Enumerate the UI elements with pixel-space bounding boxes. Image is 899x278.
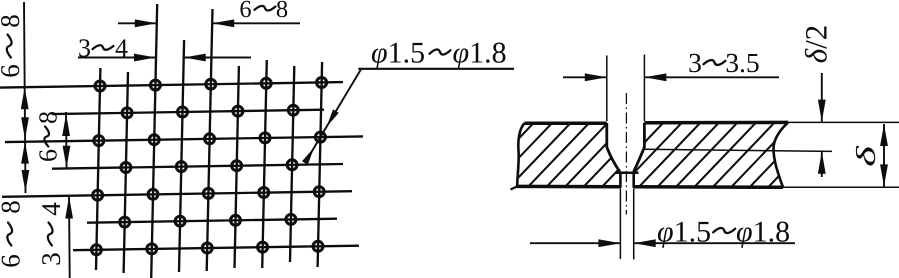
wire column line 5: [207, 9, 213, 271]
label 6~8 upper-left rotated: [1, 15, 19, 76]
section hatching: [451, 121, 850, 190]
arrow up at row1: [21, 87, 29, 109]
wire row line 1: [0, 82, 343, 88]
dimension delta/2 vertical: [821, 73, 823, 122]
extension line throat left down: [619, 189, 621, 260]
dimension 3~3.5 line: [563, 76, 607, 78]
label 3~3.5: [689, 54, 700, 72]
leader line to hole with diameter arrows: [308, 69, 361, 158]
taper left wall: [607, 147, 620, 172]
plate left freehand edge: [517, 123, 524, 186]
extension line slot right up: [643, 55, 645, 122]
taper right wall: [634, 147, 645, 172]
plate bottom edge left part: [517, 185, 621, 189]
left figure: staggered hole pattern grid: [0, 4, 363, 278]
wire row line 2: [52, 110, 324, 114]
label phi1.5~phi1.8 bottom: [658, 227, 673, 248]
arrow down at row4: [63, 146, 71, 168]
dimension phi bottom line: [530, 242, 620, 244]
arrow down at row5: [22, 170, 30, 192]
extension line delta/2 horizontal: [644, 149, 832, 151]
plate right freehand edge: [773, 122, 788, 187]
label phi1.5~phi1.8 top: [372, 48, 387, 69]
wire row line 5: [2, 191, 352, 197]
arrow up at row5: [65, 197, 73, 219]
bottom edge thin extension: [783, 186, 899, 188]
wire column line 7: [262, 60, 267, 268]
hole slot left wall: [605, 123, 608, 148]
extension line throat right down: [633, 189, 635, 260]
label delta rotated: [856, 146, 875, 166]
wire row line 7: [73, 246, 359, 251]
plate top edge right part: [644, 121, 788, 125]
plate top edge left part: [525, 121, 607, 125]
dimension line B mid-left vertical 6~8: [65, 112, 68, 170]
label 6~8 mid-left rotated: [39, 112, 57, 161]
wire column line 2: [124, 72, 128, 273]
transition bar: [616, 171, 639, 174]
arrow up at row2: [62, 114, 70, 136]
throat right wall: [632, 173, 635, 188]
label 3~4 top: [79, 39, 90, 56]
dimension line A left vertical: [24, 2, 26, 193]
wire column line 9: [318, 62, 323, 267]
wire column line 8: [290, 66, 294, 262]
label 3~4 left rotated: [42, 203, 60, 265]
arrow up below row3: [21, 142, 29, 164]
arrow at hole upper right: [327, 109, 339, 126]
wire row line 4: [52, 164, 343, 169]
wire column line 3: [151, 4, 157, 278]
arrow down at row3: [21, 117, 29, 139]
wire column line 1: [96, 68, 100, 270]
corner tick bottom left: [511, 186, 518, 189]
label 6~8 top: [240, 1, 250, 17]
hole slot right wall: [643, 123, 646, 148]
label delta/2 rotated: [805, 26, 827, 62]
plate bottom edge right part: [634, 185, 783, 189]
wire row line 6: [87, 219, 337, 223]
centerline dash-dot: [625, 93, 627, 215]
hole pattern circles: [95, 81, 105, 91]
wire column line 4: [179, 40, 184, 272]
arrow at hole lower left: [302, 148, 314, 165]
dimension 6~8 top horizontal: [118, 22, 157, 24]
dimension delta vertical: [883, 124, 885, 186]
throat left wall: [619, 173, 622, 188]
wire column line 6: [235, 66, 239, 268]
leader underline: [358, 68, 514, 70]
wire row line 3: [5, 136, 363, 142]
extension line slot left up: [606, 56, 608, 122]
dimension line D lower-left vertical 3~4: [68, 196, 71, 278]
label 6~8 lower-left rotated: [2, 201, 20, 266]
dimension 3~4 top horizontal: [78, 57, 156, 59]
top edge thin extension: [788, 121, 899, 123]
